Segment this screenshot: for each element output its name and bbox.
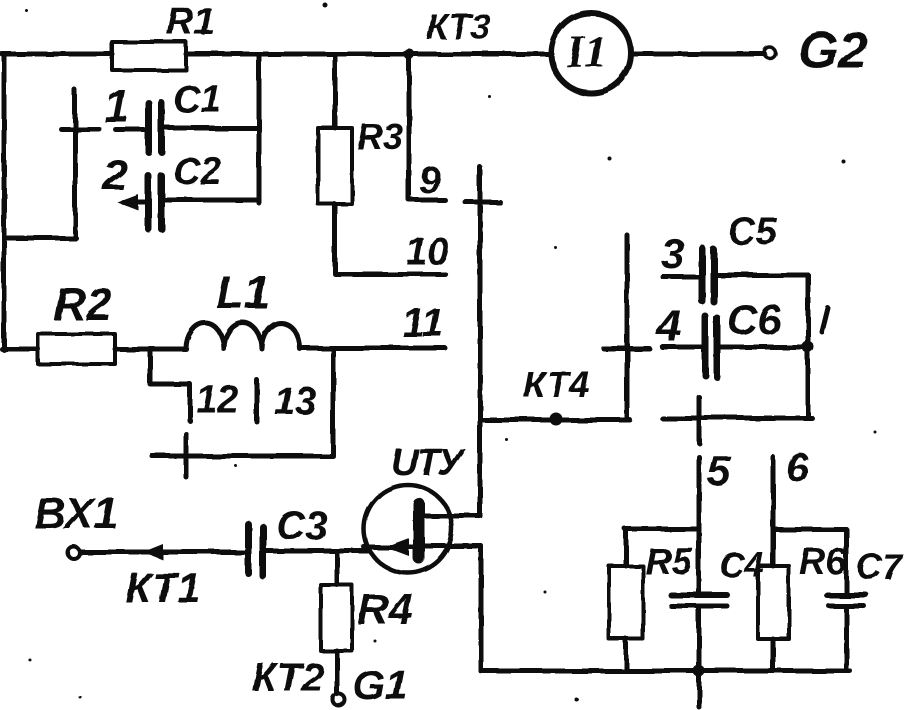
lamp I1 (551, 13, 631, 93)
wire C5C6 right branch (802, 275, 814, 418)
svg-text:9: 9 (419, 160, 440, 202)
wire top bus (2, 52, 765, 57)
resistor R5 (609, 529, 694, 671)
svg-text:R3: R3 (357, 116, 403, 157)
svg-text:R5: R5 (645, 541, 694, 582)
wire node11 mate vertical (603, 235, 649, 420)
node KT3 (404, 6, 491, 60)
node 5 (707, 447, 731, 494)
svg-text:I1: I1 (566, 27, 607, 77)
capacitor C1 (104, 79, 259, 152)
svg-text:11: 11 (402, 301, 444, 345)
node 9 (409, 54, 445, 202)
inductor L1 (186, 266, 445, 349)
svg-text:КТ2: КТ2 (252, 656, 324, 700)
wire bar R6C7 (773, 527, 846, 532)
node KT4 (480, 364, 630, 426)
svg-text:2: 2 (102, 151, 128, 200)
svg-text:R1: R1 (166, 1, 215, 43)
svg-text:G1: G1 (352, 661, 408, 708)
svg-text:КТ4: КТ4 (523, 364, 591, 405)
svg-text:R6: R6 (799, 541, 847, 582)
svg-text:С5: С5 (728, 211, 777, 253)
svg-text:5: 5 (707, 447, 731, 494)
wire terminal6 lead (771, 457, 776, 566)
wire tap return (152, 350, 333, 477)
capacitor C3 (248, 504, 368, 576)
svg-text:10: 10 (406, 231, 448, 273)
svg-text:R4: R4 (357, 585, 413, 634)
terminal G1 / node KT2 (252, 656, 408, 708)
wire input with arrow / node KT1 (81, 544, 243, 611)
svg-text:С2: С2 (173, 151, 222, 193)
wire bar R5C4 (625, 527, 699, 532)
svg-text:L1: L1 (216, 266, 270, 318)
resistor R6 (758, 541, 847, 671)
wire tap 13 (257, 380, 316, 423)
wire lower link (662, 397, 812, 443)
resistor R1 (112, 1, 215, 70)
node 6 (786, 446, 809, 490)
wire B1 vertical (479, 546, 484, 671)
svg-text:С7: С7 (856, 546, 904, 587)
capacitor C4 (671, 546, 764, 606)
wire right branch of C1C2 (257, 54, 262, 203)
svg-text:G2: G2 (798, 22, 867, 80)
wire tap 12 (150, 350, 238, 421)
node 11 (402, 301, 444, 345)
terminal BX1 (34, 489, 118, 559)
capacitor C2 (102, 151, 258, 229)
svg-text:С6: С6 (727, 296, 781, 343)
svg-text:С1: С1 (173, 79, 222, 121)
resistor R2 (2, 278, 185, 364)
svg-text:12: 12 (196, 379, 238, 421)
capacitor C6 (656, 296, 807, 377)
transistor UTU (unijunction) (364, 442, 481, 573)
svg-text:3: 3 (661, 230, 684, 277)
resistor R3 (318, 54, 445, 274)
wire left outer (2, 54, 7, 350)
svg-text:6: 6 (786, 446, 809, 490)
stray mark (822, 308, 828, 332)
svg-text:ВХ1: ВХ1 (34, 489, 118, 538)
resistor R4 (321, 551, 413, 694)
svg-text:КТ3: КТ3 (426, 6, 491, 47)
svg-text:4: 4 (656, 302, 681, 351)
svg-text:КТ1: КТ1 (125, 564, 200, 611)
svg-text:1: 1 (104, 80, 130, 132)
svg-text:С3: С3 (276, 504, 327, 548)
wire node1 branch (4, 90, 99, 238)
svg-text:R2: R2 (53, 278, 112, 330)
capacitor C5 (661, 211, 808, 302)
wire B2 vertical (465, 167, 500, 516)
wire terminal5 to C4 (697, 457, 702, 707)
capacitor C7 (827, 529, 904, 671)
terminal G2 (765, 22, 868, 80)
svg-text:UТУ: UТУ (391, 442, 467, 484)
node 10 (406, 231, 448, 273)
svg-text:13: 13 (274, 381, 316, 423)
wire bottom bus (481, 665, 850, 677)
